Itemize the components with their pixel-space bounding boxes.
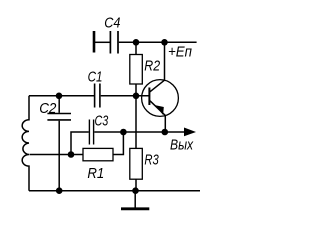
transistor VT1 collector lead: [149, 42, 164, 92]
wire R2 top lead: [135, 42, 137, 54]
ground: [121, 191, 149, 209]
svg-text:C3: C3: [95, 113, 109, 130]
wire C2 bottom lead: [58, 121, 60, 191]
node junction collector top: [161, 39, 168, 46]
wire R3 top lead: [135, 96, 137, 149]
svg-text:C2: C2: [39, 100, 57, 117]
svg-text:R3: R3: [144, 151, 159, 168]
resistor R2: [130, 55, 143, 85]
wire R1 right lead: [113, 132, 123, 155]
wire R2 bottom lead: [135, 84, 137, 96]
capacitor C1: [95, 84, 100, 108]
wire terminal to C4: [95, 41, 110, 43]
svg-text:Вых: Вых: [170, 137, 194, 154]
node junction base: [133, 93, 140, 100]
inductor L1: [22, 96, 29, 191]
wire coil tap to R1: [30, 154, 84, 156]
capacitor C3: [89, 120, 93, 145]
capacitor C4: [110, 31, 118, 54]
arrow output: [184, 128, 196, 137]
wire output rail: [94, 131, 184, 133]
svg-text:C1: C1: [88, 68, 103, 85]
transistor VT1 base bar: [148, 88, 150, 106]
svg-text:R2: R2: [144, 57, 160, 74]
resistor R3: [130, 148, 143, 179]
wire bottom rail: [29, 190, 200, 192]
svg-text:+Еп: +Еп: [168, 43, 192, 60]
capacitor C4 input terminal bar: [93, 31, 96, 53]
wire R3 bottom lead: [135, 179, 137, 191]
node junction C3/R1: [68, 151, 75, 158]
svg-text:C4: C4: [104, 14, 120, 31]
wire C2 top lead: [58, 96, 60, 113]
resistor R1: [83, 148, 113, 160]
wire base rail left: [29, 95, 94, 97]
wire base rail right: [101, 95, 149, 97]
transistor VT1 circle: [142, 80, 179, 117]
node junction C2 bottom: [56, 187, 63, 194]
wire C3 left lead: [71, 132, 89, 155]
node junction R2 top: [133, 39, 140, 46]
svg-text:R1: R1: [87, 165, 104, 182]
node junction C2 top: [56, 93, 63, 100]
node junction output/R1: [120, 129, 127, 136]
transistor VT1 emitter arrow: [155, 105, 164, 115]
transistor VT1 emitter lead: [150, 101, 165, 132]
capacitor C2: [47, 114, 71, 120]
wire top rail: [119, 41, 197, 43]
node junction ground: [132, 187, 139, 194]
node junction emitter: [162, 129, 169, 136]
